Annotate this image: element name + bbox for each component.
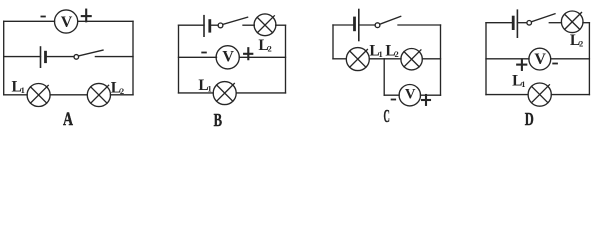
svg-text:L1: L1 [512,73,525,90]
wire C left vertical [332,25,334,59]
wire D top-right [583,22,589,24]
wire B left vertical [178,25,180,93]
wire D right vertical [588,23,590,95]
wire A middle-left [4,56,41,58]
lamp L1 (circuit D) [528,83,551,106]
wire D middle-right [551,58,590,60]
label - (voltmeter C negative) [392,99,396,101]
wire B top-left [179,24,205,26]
wire D middle-left [486,58,529,60]
switch S (circuit A) [74,50,103,59]
wire C top-left [333,24,355,26]
wire D bottom-left [486,94,528,96]
svg-text:B: B [214,110,222,129]
voltmeter U3 (circuit C) [399,85,420,106]
battery BT (circuit A) [41,47,46,67]
wire A middle (battery to switch) [46,56,75,58]
label + (voltmeter A positive) [82,10,91,22]
svg-text:L2: L2 [385,42,398,59]
wire B middle-right [239,56,285,58]
svg-text:L2: L2 [258,37,271,54]
lamp L2 (circuit B) [254,14,276,36]
wire C lamp-row right [422,58,440,60]
lamp L1 (circuit A) [27,84,50,107]
battery BT (circuit C) [355,10,359,41]
voltmeter U4 (circuit D) [529,48,551,70]
wire C top (battery to switch) [359,24,375,26]
switch S (circuit C) [375,16,401,27]
wire A top-left [4,20,55,22]
wire A top-right [78,20,133,22]
lamp L1 (circuit B) [213,82,236,105]
wire B top (battery to switch) [210,24,218,26]
svg-text:L1: L1 [198,77,211,94]
lamp L2 (circuit C) [401,49,422,70]
wire B middle-left [179,56,217,58]
wire C voltmeter-row left [384,94,399,96]
lamp L1 (circuit C) [346,48,369,71]
svg-text:L2: L2 [570,32,583,49]
wire A left vertical [3,21,5,95]
label - (voltmeter D negative) [553,63,557,65]
wire D top (battery to switch) [517,22,526,24]
battery BT (circuit B) [204,16,210,37]
voltmeter U2 (circuit B) [216,46,239,69]
voltmeter U1 (circuit A) [55,10,78,33]
svg-text:V: V [61,14,73,31]
switch S (circuit D) [527,14,555,25]
label + (voltmeter B positive) [244,48,252,59]
svg-text:A: A [63,110,73,129]
switch S (circuit B) [218,17,248,28]
wire C voltmeter-row right [421,94,441,96]
lamp L2 (circuit D) [561,11,583,33]
wire D bottom-right [551,94,589,96]
wire B top-right [276,24,286,26]
wire A bottom-right [111,94,134,96]
wire C lamp-row left [333,58,346,60]
wire A middle-right [95,56,133,58]
wire D top (switch to lamp) [549,22,561,24]
wire A right vertical [132,21,134,95]
svg-text:D: D [525,109,534,129]
svg-text:L2: L2 [111,80,124,97]
label - (voltmeter B negative) [202,52,206,54]
wire A bottom-left [4,94,27,96]
svg-text:V: V [222,49,234,66]
wire D left vertical [485,23,487,95]
wire B top (switch to lamp) [243,24,254,26]
svg-text:L1: L1 [369,42,382,59]
wire C lamp-row middle [369,58,401,60]
svg-text:V: V [534,51,546,68]
label + (voltmeter C positive) [422,95,430,105]
svg-text:V: V [405,87,416,103]
wire B right vertical [285,25,287,93]
lamp L2 (circuit A) [87,83,110,106]
wire C junction vertical between L1 and L2 [383,59,385,95]
wire D top-left [486,22,513,24]
svg-text:C: C [384,106,390,126]
wire B bottom-left [179,92,214,94]
label - (voltmeter A negative) [41,16,45,18]
wire C top-right [398,24,441,26]
battery BT (circuit D) [513,10,517,37]
wire B bottom-right [236,92,285,94]
label + (voltmeter D positive) [517,59,526,70]
wire C right vertical [440,25,442,95]
svg-text:L1: L1 [12,79,25,96]
wire A bottom-middle [50,94,87,96]
